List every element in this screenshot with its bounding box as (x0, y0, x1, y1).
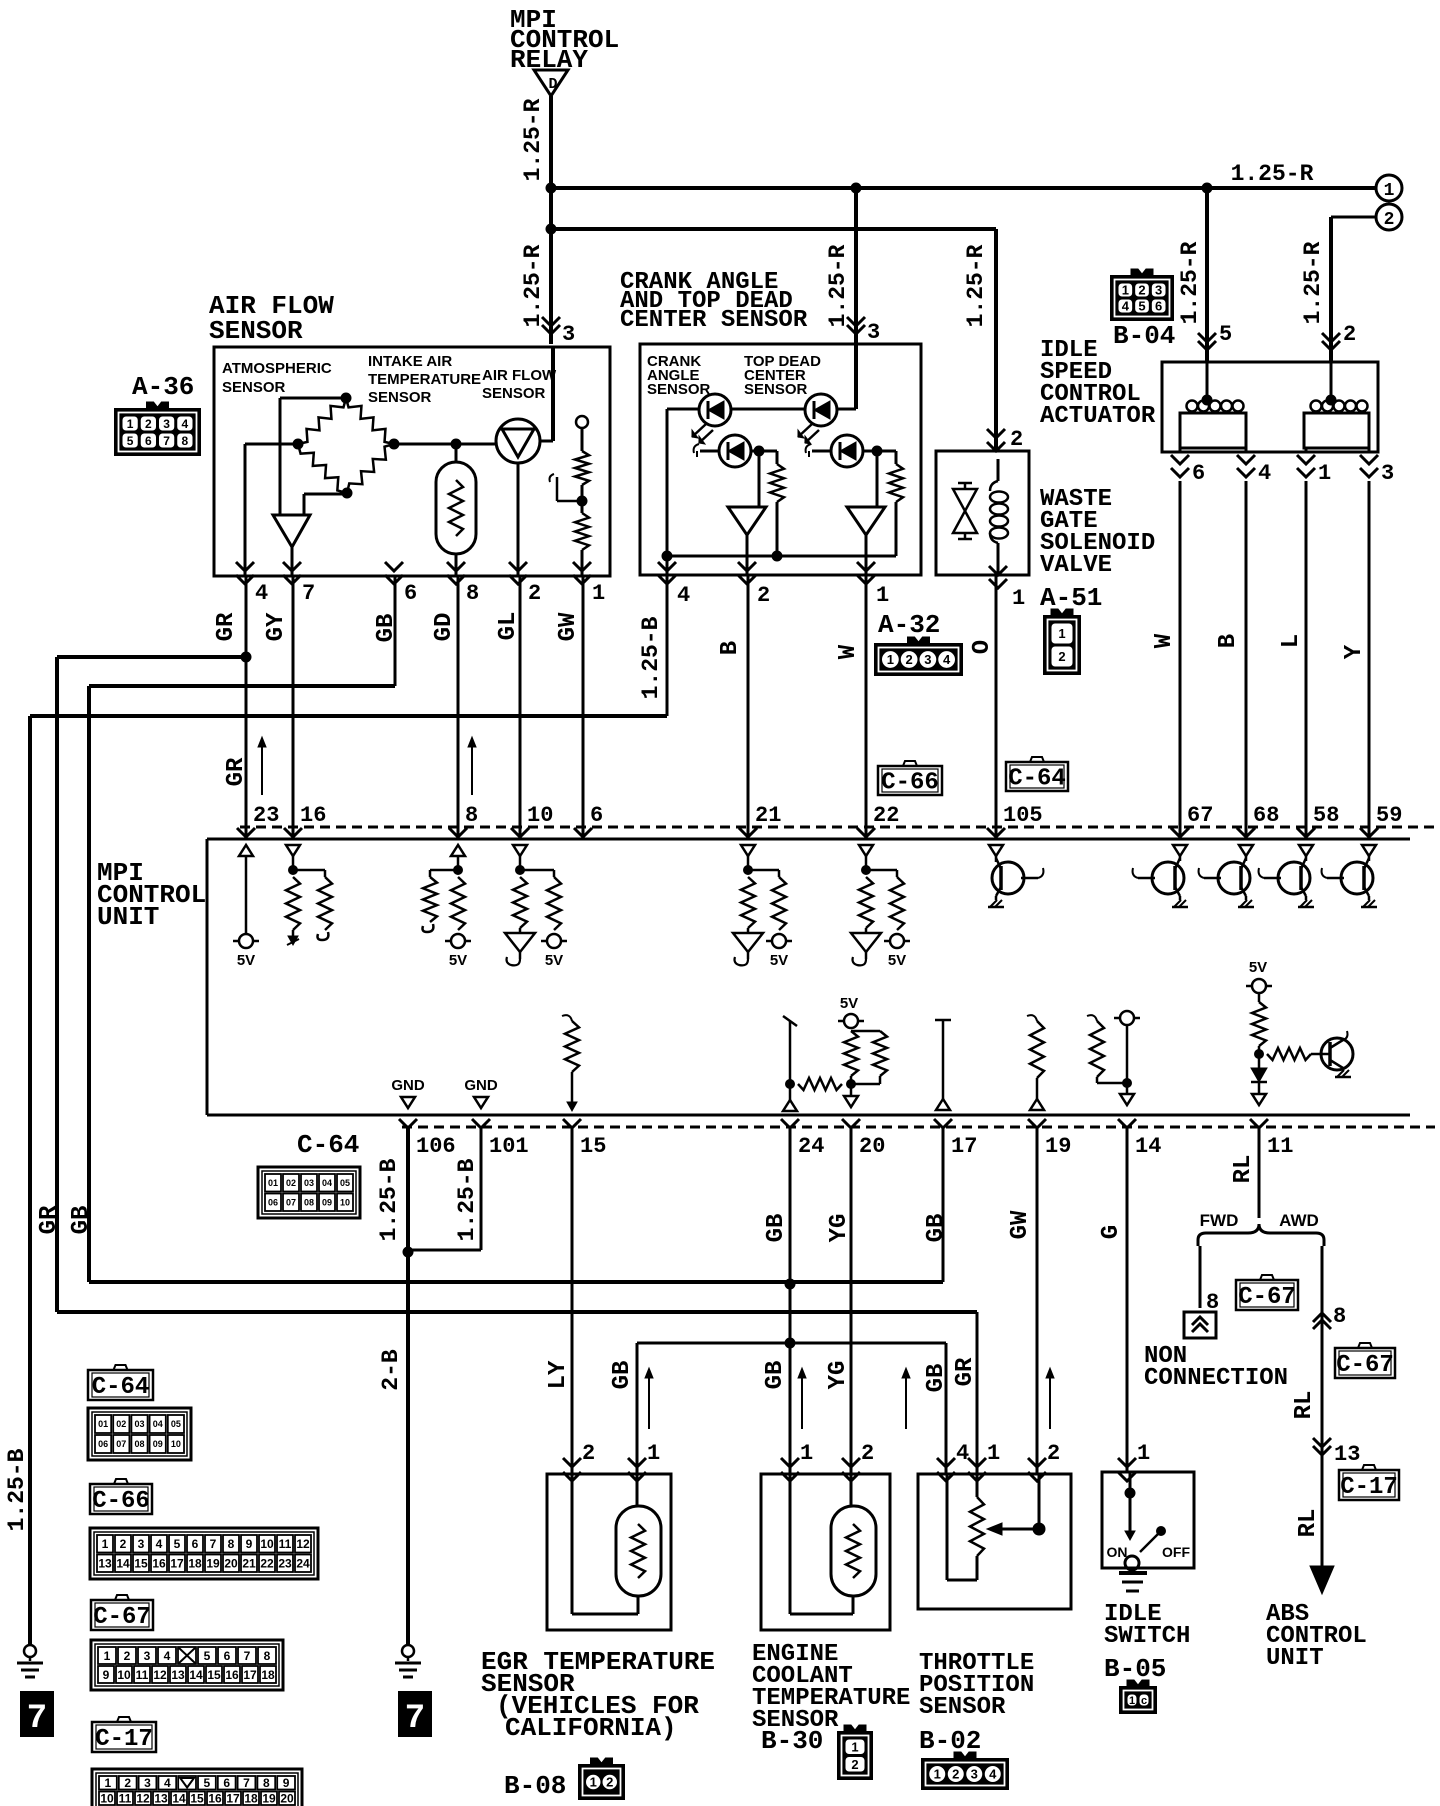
svg-text:2: 2 (528, 581, 541, 606)
svg-text:15: 15 (207, 1668, 221, 1682)
svg-text:12: 12 (136, 1792, 150, 1806)
svg-text:YG: YG (825, 1361, 852, 1390)
svg-text:C-67: C-67 (1238, 1284, 1296, 1311)
svg-text:AWD: AWD (1279, 1211, 1319, 1230)
svg-text:3: 3 (138, 1537, 145, 1551)
svg-text:5: 5 (1138, 299, 1145, 314)
svg-text:8: 8 (1333, 1304, 1346, 1329)
svg-text:17: 17 (951, 1134, 977, 1159)
svg-text:GB: GB (763, 1214, 790, 1243)
svg-text:c: c (1141, 1695, 1147, 1707)
svg-text:2: 2 (1010, 427, 1023, 452)
svg-text:1.25-B: 1.25-B (454, 1158, 480, 1241)
svg-text:19: 19 (262, 1792, 276, 1806)
svg-text:3: 3 (924, 652, 931, 667)
svg-text:12: 12 (296, 1537, 310, 1551)
svg-text:B-08: B-08 (504, 1771, 566, 1801)
svg-text:4: 4 (182, 417, 189, 431)
svg-text:GR: GR (223, 757, 250, 786)
svg-text:3: 3 (144, 1776, 151, 1790)
svg-text:8: 8 (263, 1776, 270, 1790)
svg-text:68: 68 (1253, 803, 1279, 828)
svg-text:A-32: A-32 (878, 610, 940, 640)
svg-text:5V: 5V (840, 995, 858, 1012)
svg-text:LY: LY (545, 1360, 572, 1389)
svg-text:FWD: FWD (1200, 1211, 1239, 1230)
svg-text:1: 1 (1122, 283, 1129, 298)
svg-text:2: 2 (757, 583, 770, 608)
svg-text:1: 1 (590, 1775, 597, 1790)
svg-text:14: 14 (189, 1668, 203, 1682)
svg-text:C-64: C-64 (297, 1130, 359, 1160)
svg-text:4: 4 (943, 652, 951, 667)
svg-text:2: 2 (582, 1441, 595, 1466)
svg-text:C-66: C-66 (92, 1488, 150, 1515)
svg-text:2: 2 (1384, 210, 1395, 230)
svg-text:11: 11 (279, 1537, 292, 1551)
svg-text:7: 7 (405, 1700, 425, 1738)
svg-text:GB: GB (609, 1361, 636, 1390)
svg-text:RL: RL (1291, 1391, 1318, 1420)
svg-text:1.25-R: 1.25-R (1177, 241, 1203, 324)
svg-text:GR: GR (213, 612, 240, 641)
svg-text:4: 4 (1122, 299, 1130, 314)
svg-text:01: 01 (98, 1419, 108, 1429)
svg-text:4: 4 (989, 1767, 997, 1782)
svg-text:3: 3 (971, 1767, 978, 1782)
svg-text:1.25-B: 1.25-B (4, 1448, 30, 1531)
svg-text:2: 2 (124, 1649, 131, 1663)
svg-text:21: 21 (755, 803, 781, 828)
svg-text:8: 8 (228, 1537, 235, 1551)
svg-text:8: 8 (264, 1649, 271, 1663)
svg-text:B-30: B-30 (761, 1726, 823, 1756)
svg-text:5V: 5V (888, 952, 906, 969)
svg-text:5V: 5V (1249, 959, 1267, 976)
svg-text:106: 106 (416, 1134, 456, 1159)
svg-text:14: 14 (172, 1792, 186, 1806)
svg-text:17: 17 (243, 1668, 257, 1682)
svg-text:2: 2 (906, 652, 913, 667)
svg-text:09: 09 (322, 1197, 332, 1207)
svg-text:3: 3 (1381, 461, 1394, 486)
svg-text:10: 10 (171, 1439, 181, 1449)
svg-text:7: 7 (302, 581, 315, 606)
svg-text:01: 01 (268, 1178, 278, 1188)
svg-text:08: 08 (134, 1439, 144, 1449)
svg-text:GR: GR (36, 1205, 63, 1234)
svg-text:4: 4 (956, 1441, 969, 1466)
svg-text:GB: GB (923, 1214, 950, 1243)
svg-text:AIR FLOW: AIR FLOW (482, 367, 557, 384)
svg-text:15: 15 (580, 1134, 606, 1159)
svg-text:L: L (1278, 634, 1305, 648)
svg-text:4: 4 (164, 1649, 171, 1663)
svg-text:16: 16 (225, 1668, 239, 1682)
svg-text:SENSOR: SENSOR (647, 381, 711, 398)
svg-text:3: 3 (144, 1649, 151, 1663)
svg-text:ATMOSPHERIC: ATMOSPHERIC (222, 360, 332, 377)
svg-text:RL: RL (1295, 1509, 1322, 1538)
svg-text:6: 6 (192, 1537, 199, 1551)
svg-text:11: 11 (136, 1668, 149, 1682)
svg-text:1.25-R: 1.25-R (1231, 161, 1314, 187)
svg-text:6: 6 (590, 803, 603, 828)
svg-text:1: 1 (647, 1441, 660, 1466)
svg-text:23: 23 (278, 1557, 292, 1571)
svg-text:10: 10 (260, 1537, 274, 1551)
svg-text:09: 09 (153, 1439, 163, 1449)
svg-text:2: 2 (124, 1776, 131, 1790)
svg-text:22: 22 (260, 1557, 274, 1571)
svg-text:4: 4 (255, 581, 268, 606)
svg-text:GND: GND (391, 1077, 425, 1094)
svg-text:O: O (969, 640, 996, 654)
svg-text:2: 2 (606, 1775, 613, 1790)
svg-text:3: 3 (163, 417, 170, 431)
svg-text:GY: GY (263, 612, 290, 641)
svg-text:2: 2 (1343, 322, 1356, 347)
svg-text:1.25-R: 1.25-R (520, 98, 546, 181)
svg-text:GR: GR (952, 1357, 979, 1386)
svg-text:7: 7 (27, 1700, 47, 1738)
svg-text:SWITCH: SWITCH (1104, 1623, 1190, 1650)
svg-text:6: 6 (404, 581, 417, 606)
svg-text:1: 1 (127, 417, 134, 431)
svg-text:2: 2 (1047, 1441, 1060, 1466)
svg-text:10: 10 (100, 1792, 114, 1806)
svg-text:07: 07 (116, 1439, 126, 1449)
svg-text:SENSOR: SENSOR (482, 385, 546, 402)
svg-text:5: 5 (204, 1776, 211, 1790)
svg-text:RL: RL (1230, 1155, 1257, 1184)
svg-text:5: 5 (1219, 322, 1232, 347)
svg-text:19: 19 (1045, 1134, 1071, 1159)
svg-text:58: 58 (1313, 803, 1339, 828)
svg-text:C-67: C-67 (93, 1604, 151, 1631)
svg-text:INTAKE AIR: INTAKE AIR (368, 353, 452, 370)
svg-text:GD: GD (431, 613, 458, 642)
svg-text:22: 22 (873, 803, 899, 828)
svg-text:11: 11 (119, 1792, 132, 1806)
svg-text:05: 05 (171, 1419, 181, 1429)
svg-text:8: 8 (465, 803, 478, 828)
svg-text:1: 1 (1318, 461, 1331, 486)
svg-text:7: 7 (243, 1776, 250, 1790)
svg-text:CONNECTION: CONNECTION (1144, 1365, 1288, 1392)
svg-text:TEMPERATURE: TEMPERATURE (368, 371, 481, 388)
svg-text:SENSOR: SENSOR (919, 1694, 1006, 1721)
svg-text:06: 06 (268, 1197, 278, 1207)
svg-text:7: 7 (163, 434, 170, 448)
svg-text:CENTER SENSOR: CENTER SENSOR (620, 307, 808, 334)
svg-text:2: 2 (851, 1757, 858, 1772)
svg-text:3: 3 (867, 320, 880, 345)
svg-text:GW: GW (1007, 1210, 1034, 1239)
svg-text:1: 1 (987, 1441, 1000, 1466)
svg-text:10: 10 (117, 1668, 131, 1682)
svg-text:C-17: C-17 (1340, 1474, 1398, 1501)
svg-text:20: 20 (224, 1557, 238, 1571)
svg-text:5V: 5V (237, 952, 255, 969)
svg-text:GND: GND (464, 1077, 498, 1094)
svg-text:UNIT: UNIT (97, 902, 159, 932)
svg-text:17: 17 (226, 1792, 240, 1806)
svg-text:5V: 5V (449, 952, 467, 969)
svg-text:GB: GB (762, 1361, 789, 1390)
svg-text:18: 18 (261, 1668, 275, 1682)
svg-text:1: 1 (800, 1441, 813, 1466)
svg-text:SENSOR: SENSOR (368, 389, 432, 406)
svg-text:2: 2 (120, 1537, 127, 1551)
svg-text:B-05: B-05 (1104, 1654, 1166, 1684)
svg-text:1: 1 (1384, 181, 1395, 201)
svg-text:1.25-R: 1.25-R (825, 244, 851, 327)
svg-text:04: 04 (322, 1178, 332, 1188)
svg-text:C-17: C-17 (95, 1726, 153, 1753)
svg-text:7: 7 (244, 1649, 251, 1663)
svg-text:SENSOR: SENSOR (744, 381, 808, 398)
svg-text:1: 1 (592, 581, 605, 606)
svg-text:1: 1 (105, 1776, 112, 1790)
svg-text:21: 21 (242, 1557, 256, 1571)
svg-text:GB: GB (68, 1206, 95, 1235)
svg-text:3: 3 (1155, 283, 1162, 298)
svg-text:4: 4 (164, 1776, 171, 1790)
svg-text:2: 2 (861, 1441, 874, 1466)
svg-text:2: 2 (145, 417, 152, 431)
svg-text:4: 4 (1258, 461, 1271, 486)
svg-text:SENSOR: SENSOR (209, 316, 303, 346)
svg-text:2: 2 (1138, 283, 1145, 298)
svg-text:13: 13 (98, 1557, 112, 1571)
svg-text:B: B (717, 641, 744, 655)
svg-text:YG: YG (826, 1214, 853, 1243)
svg-text:03: 03 (134, 1419, 144, 1429)
svg-text:5V: 5V (545, 952, 563, 969)
svg-text:16: 16 (208, 1792, 222, 1806)
svg-text:2: 2 (1058, 649, 1065, 664)
svg-text:5V: 5V (770, 952, 788, 969)
svg-text:8: 8 (466, 581, 479, 606)
svg-text:1: 1 (1129, 1695, 1135, 1707)
svg-text:1.25-R: 1.25-R (520, 244, 546, 327)
svg-text:11: 11 (1267, 1134, 1293, 1159)
svg-text:CALIFORNIA): CALIFORNIA) (505, 1713, 677, 1743)
svg-text:1: 1 (851, 1739, 858, 1754)
svg-text:07: 07 (286, 1197, 296, 1207)
svg-text:1: 1 (104, 1649, 111, 1663)
svg-text:67: 67 (1187, 803, 1213, 828)
svg-text:1: 1 (102, 1537, 109, 1551)
svg-text:2: 2 (952, 1767, 959, 1782)
svg-text:14: 14 (116, 1557, 130, 1571)
svg-text:5: 5 (204, 1649, 211, 1663)
svg-text:UNIT: UNIT (1266, 1645, 1324, 1672)
svg-text:ON: ON (1107, 1544, 1128, 1560)
svg-text:5: 5 (127, 434, 134, 448)
svg-text:10: 10 (340, 1197, 350, 1207)
svg-text:08: 08 (304, 1197, 314, 1207)
svg-text:A-36: A-36 (132, 372, 194, 402)
svg-text:15: 15 (134, 1557, 148, 1571)
svg-text:D: D (548, 76, 557, 93)
svg-text:24: 24 (296, 1557, 310, 1571)
svg-text:6: 6 (1155, 299, 1162, 314)
svg-text:GW: GW (555, 612, 582, 641)
svg-text:23: 23 (253, 803, 279, 828)
svg-text:59: 59 (1376, 803, 1402, 828)
svg-text:12: 12 (153, 1668, 167, 1682)
svg-text:16: 16 (300, 803, 326, 828)
svg-text:16: 16 (152, 1557, 166, 1571)
svg-text:24: 24 (798, 1134, 824, 1159)
svg-text:05: 05 (340, 1178, 350, 1188)
svg-text:02: 02 (116, 1419, 126, 1429)
svg-text:1: 1 (876, 583, 889, 608)
svg-text:1: 1 (934, 1767, 941, 1782)
svg-text:9: 9 (246, 1537, 253, 1551)
svg-text:18: 18 (244, 1792, 258, 1806)
svg-text:13: 13 (154, 1792, 168, 1806)
svg-text:W: W (1151, 633, 1178, 648)
svg-text:GL: GL (495, 612, 522, 641)
svg-text:1.25-R: 1.25-R (1300, 241, 1326, 324)
svg-text:02: 02 (286, 1178, 296, 1188)
svg-text:04: 04 (153, 1419, 163, 1429)
svg-text:Y: Y (1341, 644, 1368, 659)
svg-text:C-67: C-67 (1336, 1352, 1394, 1379)
svg-text:105: 105 (1003, 803, 1043, 828)
svg-text:13: 13 (1334, 1442, 1360, 1467)
svg-text:1: 1 (1058, 626, 1065, 641)
svg-text:1: 1 (1012, 586, 1025, 611)
svg-text:GB: GB (923, 1364, 950, 1393)
svg-text:17: 17 (170, 1557, 184, 1571)
svg-text:8: 8 (182, 434, 189, 448)
svg-text:W: W (835, 644, 862, 659)
svg-text:6: 6 (224, 1649, 231, 1663)
svg-text:OFF: OFF (1162, 1544, 1190, 1560)
svg-text:B: B (1215, 634, 1242, 648)
svg-text:6: 6 (1192, 461, 1205, 486)
svg-text:19: 19 (206, 1557, 220, 1571)
svg-text:9: 9 (103, 1668, 110, 1682)
svg-text:6: 6 (145, 434, 152, 448)
svg-text:1.25-B: 1.25-B (638, 616, 664, 699)
svg-text:9: 9 (283, 1776, 290, 1790)
svg-text:4: 4 (156, 1537, 163, 1551)
svg-text:10: 10 (527, 803, 553, 828)
svg-text:20: 20 (859, 1134, 885, 1159)
svg-text:13: 13 (171, 1668, 185, 1682)
svg-text:6: 6 (223, 1776, 230, 1790)
svg-text:1: 1 (1137, 1441, 1150, 1466)
svg-text:20: 20 (280, 1792, 294, 1806)
svg-text:06: 06 (98, 1439, 108, 1449)
svg-text:4: 4 (677, 583, 690, 608)
svg-text:7: 7 (210, 1537, 217, 1551)
svg-text:ACTUATOR: ACTUATOR (1040, 403, 1156, 430)
svg-text:VALVE: VALVE (1040, 552, 1112, 579)
svg-text:03: 03 (304, 1178, 314, 1188)
svg-text:B-04: B-04 (1113, 321, 1175, 351)
svg-text:15: 15 (190, 1792, 204, 1806)
svg-text:G: G (1098, 1225, 1125, 1239)
svg-text:1: 1 (887, 652, 894, 667)
svg-text:3: 3 (562, 322, 575, 347)
svg-text:1.25-R: 1.25-R (963, 244, 989, 327)
svg-text:101: 101 (489, 1134, 529, 1159)
svg-text:C-64: C-64 (92, 1374, 150, 1401)
svg-text:14: 14 (1135, 1134, 1161, 1159)
svg-text:2-B: 2-B (378, 1349, 404, 1391)
svg-text:SENSOR: SENSOR (222, 379, 286, 396)
svg-text:1.25-B: 1.25-B (376, 1158, 402, 1241)
svg-text:5: 5 (174, 1537, 181, 1551)
svg-text:18: 18 (188, 1557, 202, 1571)
svg-text:C-66: C-66 (881, 770, 939, 797)
svg-text:C-64: C-64 (1008, 766, 1066, 793)
